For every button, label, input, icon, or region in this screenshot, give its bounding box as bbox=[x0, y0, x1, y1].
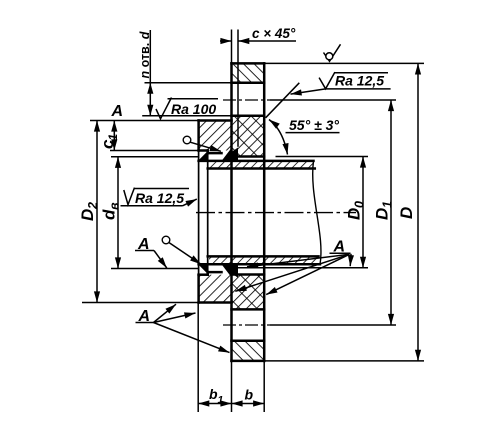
svg-text:A: A bbox=[137, 236, 150, 253]
svg-text:Ra 100: Ra 100 bbox=[171, 101, 216, 117]
svg-text:1: 1 bbox=[380, 201, 394, 208]
svg-text:D: D bbox=[344, 208, 363, 220]
svg-text:55° ± 3°: 55° ± 3° bbox=[289, 117, 339, 133]
svg-text:1: 1 bbox=[106, 134, 120, 141]
svg-text:1: 1 bbox=[218, 394, 224, 406]
svg-text:2: 2 bbox=[86, 202, 100, 210]
svg-text:D: D bbox=[78, 209, 97, 221]
svg-text:Ra 12,5: Ra 12,5 bbox=[135, 190, 184, 206]
svg-text:b: b bbox=[245, 387, 254, 403]
svg-text:n отв. d: n отв. d bbox=[138, 31, 152, 78]
svg-text:Ra 12,5: Ra 12,5 bbox=[335, 73, 384, 89]
svg-text:в: в bbox=[107, 202, 121, 210]
svg-text:D: D bbox=[372, 208, 391, 220]
svg-text:c × 45°: c × 45° bbox=[252, 26, 296, 41]
svg-text:A: A bbox=[333, 239, 346, 256]
svg-text:0: 0 bbox=[352, 201, 366, 208]
svg-text:A: A bbox=[138, 308, 151, 325]
svg-text:D: D bbox=[397, 207, 416, 219]
svg-text:A: A bbox=[111, 103, 124, 120]
